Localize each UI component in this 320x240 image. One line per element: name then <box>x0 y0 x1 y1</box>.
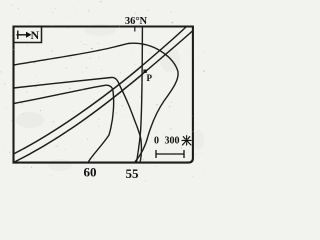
paper background <box>0 0 207 184</box>
svg-text:60: 60 <box>84 165 97 180</box>
faint scan mottling <box>16 24 204 171</box>
scale bar <box>156 150 184 158</box>
scan noise speckles <box>0 1 205 181</box>
point P dot <box>143 70 146 73</box>
north arrow <box>17 31 28 40</box>
road lower line <box>14 31 194 163</box>
contour B <box>14 77 142 162</box>
contour A (55) <box>14 43 179 162</box>
map frame border <box>14 27 193 163</box>
latitude tick under label <box>134 27 136 32</box>
road upper line <box>14 27 187 155</box>
contour D (60) <box>14 85 114 162</box>
svg-text:0: 0 <box>154 136 159 147</box>
svg-text:N: N <box>31 28 40 42</box>
svg-text:55: 55 <box>126 166 140 181</box>
vertical line (meridian) <box>137 27 143 163</box>
north arrow legend box <box>14 27 42 43</box>
svg-text:P: P <box>147 73 153 83</box>
svg-text:300: 300 <box>165 136 180 147</box>
svg-text:36°N: 36°N <box>125 16 148 27</box>
